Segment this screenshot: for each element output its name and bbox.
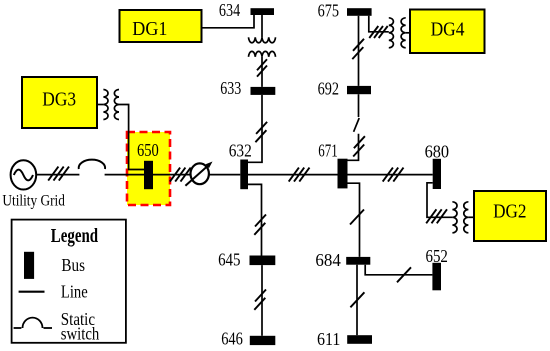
svg-text:Utility Grid: Utility Grid — [2, 192, 65, 209]
wire: T1 to bus 634 — [261, 15, 263, 37]
legend label Static switch — [61, 309, 100, 344]
line mark / 684-611 — [350, 292, 364, 307]
legend line symbol — [19, 291, 45, 293]
bus 650 — [144, 161, 153, 189]
svg-text:646: 646 — [221, 328, 243, 348]
bus 671 — [338, 159, 348, 189]
svg-text:DG1: DG1 — [132, 18, 167, 40]
voltage regulator (circle with arrow) — [185, 162, 212, 186]
svg-text:675: 675 — [318, 1, 340, 21]
wire: bus 632 to bus 671 — [248, 174, 338, 176]
bus 684 — [346, 257, 370, 265]
line marks // 633-T1 — [257, 59, 267, 76]
transformer T1 (634-633) — [249, 37, 276, 57]
line marks /// utility-650 — [48, 167, 69, 181]
wire: bus 675 to transformer T4 — [369, 16, 389, 32]
wire: bus 671 to bus 680 — [348, 174, 433, 176]
bus 652 — [432, 263, 441, 291]
DG3 box — [22, 77, 97, 128]
bus 680 — [433, 159, 441, 189]
svg-text:633: 633 — [220, 78, 241, 98]
switch 692-671 — [348, 94, 360, 160]
line marks // switch-671 — [353, 136, 365, 156]
legend static switch symbol — [14, 318, 52, 328]
bus 611 — [347, 335, 372, 344]
bus 675 — [347, 8, 372, 16]
svg-text:645: 645 — [218, 250, 241, 270]
svg-text:652: 652 — [426, 246, 448, 266]
legend bus symbol — [24, 252, 34, 279]
svg-text:Legend: Legend — [51, 225, 98, 247]
line marks // 645-646 — [254, 290, 266, 310]
bus 632 — [240, 160, 248, 190]
line mark / 671-684 — [350, 210, 364, 225]
wire: bus 684 down to bus 611 — [356, 265, 358, 336]
wire: bus 684 to bus 652 — [365, 265, 432, 275]
DG1 box — [120, 10, 202, 42]
wire: bus 633 up to transformer T1 — [261, 57, 263, 87]
svg-text:671: 671 — [318, 140, 337, 160]
wire: T4 to DG4 — [406, 32, 410, 34]
svg-text:680: 680 — [425, 142, 450, 162]
svg-text:634: 634 — [219, 0, 241, 20]
wire: bus 680 to transformer T2 — [427, 183, 452, 218]
legend box — [12, 220, 126, 343]
bus 633 — [251, 87, 276, 95]
DG2 box — [474, 191, 546, 241]
svg-text:632: 632 — [229, 141, 252, 161]
wire: static switch to bus 650 — [105, 174, 144, 176]
svg-text:DG3: DG3 — [42, 89, 76, 111]
line mark / 684-652 — [397, 267, 411, 282]
wire: bus 675 down to bus 692 — [358, 16, 360, 86]
svg-text:Line: Line — [61, 282, 88, 302]
svg-text:611: 611 — [317, 329, 340, 349]
svg-text:684: 684 — [315, 250, 341, 270]
wire: regulator to bus 632 — [209, 174, 241, 176]
wire: T3 to bus 650 — [119, 105, 144, 170]
wire: T2 to DG2 — [468, 216, 474, 218]
svg-text:switch: switch — [61, 324, 100, 344]
svg-text:DG4: DG4 — [431, 19, 465, 41]
line marks /// 675-T4 — [369, 26, 387, 38]
bus 646 — [250, 336, 275, 345]
wire: utility grid to static switch — [37, 174, 80, 176]
utility grid source G — [11, 160, 37, 189]
line marks // 632-645 — [254, 215, 266, 235]
bus 692 — [347, 86, 371, 94]
static switch arc — [79, 160, 105, 169]
line marks // 632-633 — [255, 122, 267, 142]
transformer T3 (DG3) — [103, 90, 119, 120]
line marks // 675-692 — [352, 39, 364, 59]
line marks /// 671-680 — [383, 168, 404, 182]
wire: bus 645 to bus 646 — [261, 265, 263, 336]
svg-text:Bus: Bus — [61, 255, 85, 275]
svg-text:692: 692 — [318, 79, 339, 99]
line marks /// 680-T2 — [426, 209, 447, 223]
transformer T4 (DG4) — [389, 18, 406, 48]
wire: bus 650 to regulator — [153, 174, 191, 176]
node 650 highlight box (yellow fill, red dashed) — [127, 132, 170, 205]
wire: DG1 to bus 634 — [202, 15, 255, 28]
bus 645 — [250, 256, 276, 266]
svg-text:DG2: DG2 — [493, 201, 526, 223]
svg-text:650: 650 — [137, 140, 159, 160]
line marks /// 650-632 — [170, 168, 191, 182]
line marks /// 632-671 — [289, 168, 310, 182]
wire: DG3 to T3 — [97, 104, 103, 106]
bus 634 — [251, 8, 275, 15]
DG4 box — [410, 10, 485, 54]
wire: bus 632 down to bus 645 — [248, 184, 262, 255]
wire: bus 671 down to bus 684 — [348, 183, 360, 257]
transformer T2 (DG2) — [452, 202, 468, 233]
wire: bus 632 up to bus 633 — [248, 95, 262, 162]
